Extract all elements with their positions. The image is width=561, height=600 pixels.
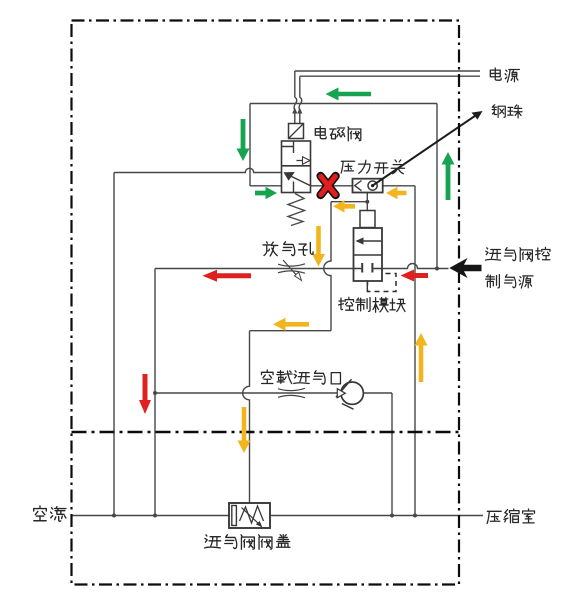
wire: loop right vertical bbox=[436, 104, 438, 269]
valve top blocked port marks bbox=[282, 141, 294, 153]
label 进气阀阀盖 intake valve bonnet bbox=[205, 535, 290, 550]
control module body bbox=[354, 228, 383, 281]
body divider bbox=[354, 254, 383, 256]
label 空载进气口 unload inlet bbox=[261, 370, 340, 384]
valve position divider bbox=[282, 165, 311, 167]
valve flow diagonal bbox=[288, 175, 311, 186]
bonnet diagonal arrow bbox=[242, 508, 262, 527]
label 电源 power bbox=[490, 68, 519, 82]
wire: unload line right segment bbox=[364, 392, 393, 394]
junction node bbox=[390, 514, 394, 518]
junction node bbox=[435, 267, 439, 271]
label 压力开关 pressure switch bbox=[341, 160, 405, 174]
yellow arrow down (vent) bbox=[312, 226, 325, 267]
upper arrow bbox=[357, 240, 381, 242]
junction node bbox=[153, 514, 157, 518]
wire: valve lower-left feed bbox=[250, 185, 282, 187]
label 制气源 line2 bbox=[486, 275, 533, 288]
red arrow left (module) bbox=[401, 270, 429, 282]
junction node bbox=[153, 391, 157, 395]
yellow arrow down (to bonnet) bbox=[238, 407, 251, 453]
chevron bbox=[355, 181, 362, 191]
junction node bbox=[365, 200, 369, 204]
black arrow left (intake valve control air source) bbox=[449, 258, 481, 278]
bottom stub to dashed box bbox=[366, 281, 368, 292]
wire: unload line y=393 bbox=[155, 392, 340, 394]
wire: power drop right with jog bbox=[299, 76, 302, 123]
wire: drop to bonnet x=249.5 with hop bbox=[243, 331, 250, 503]
wire: psw junction to left bbox=[331, 201, 367, 203]
piston bar bbox=[232, 506, 237, 526]
label 放气孔 vent hole bbox=[263, 242, 313, 256]
solenoid valve U1 coil box bbox=[289, 124, 304, 139]
control module dashed box bbox=[368, 274, 397, 292]
green arrow down (left of valve) bbox=[237, 119, 250, 161]
pressure switch box bbox=[353, 179, 383, 193]
yellow arrow left (below switch) bbox=[333, 200, 355, 213]
unload throttle symbol bbox=[278, 388, 305, 397]
junction node bbox=[413, 514, 417, 518]
wire: vent line left drop x=155 bbox=[154, 269, 156, 516]
label 电磁阀 solenoid valve bbox=[315, 126, 361, 140]
check valve poppet triangle bbox=[337, 389, 345, 398]
control module pilot box bbox=[360, 211, 375, 228]
wire: loop left vertical bbox=[249, 104, 251, 187]
label 压缩室 compression chamber bbox=[487, 509, 534, 524]
pointer arrowhead bbox=[472, 111, 483, 120]
wire: jog left at y=330.7 bbox=[250, 330, 332, 332]
outer dash-dot border bbox=[72, 21, 460, 585]
intake valve bonnet box bbox=[229, 503, 270, 528]
green arrow up (right side) bbox=[442, 152, 455, 200]
label 钢珠 steel ball bbox=[492, 105, 522, 118]
label 空滤 air filter bbox=[34, 506, 66, 521]
wire: power drop left with jog bbox=[294, 71, 297, 124]
power supply line 1 (top) bbox=[295, 70, 480, 72]
yellow arrow left (right of switch) bbox=[386, 187, 407, 199]
power supply line 2 bbox=[300, 75, 480, 77]
coil diagonal bbox=[289, 124, 303, 138]
wire: left supply vertical x=114 bbox=[113, 173, 115, 516]
wire: main vent line y=268.5 bbox=[155, 268, 362, 270]
current arrowhead right bbox=[297, 108, 302, 114]
wire: valve right to pressure switch bbox=[311, 185, 353, 187]
wire: right drop x=415 bbox=[414, 186, 416, 516]
green arrow right (valve inlet) bbox=[255, 187, 277, 199]
wire: vent drop x=331 with hop over main line bbox=[324, 202, 331, 331]
valve body bbox=[282, 141, 311, 193]
wire: main line right of module with hop bbox=[372, 264, 448, 269]
wire: unload right drop x=392 bbox=[391, 393, 393, 516]
wire: loop top horizontal bbox=[250, 103, 437, 105]
label 进气阀控 line1 bbox=[485, 247, 549, 261]
valve top arrow bbox=[297, 160, 311, 162]
label 控制模块 control module bbox=[339, 297, 405, 312]
green arrow left (top) bbox=[326, 88, 372, 101]
vent throttle diagonal arrow bbox=[283, 260, 300, 279]
inner dash-dot divider bbox=[72, 431, 460, 433]
current arrowhead left bbox=[292, 108, 297, 114]
line stubs inside body bbox=[354, 268, 383, 270]
switch circle bbox=[368, 181, 377, 190]
red X blocked mark bbox=[321, 176, 336, 195]
bonnet spring bbox=[240, 506, 264, 523]
wire: psw bottom stub bbox=[366, 193, 368, 211]
red arrow left (vent) bbox=[203, 270, 252, 282]
spring bbox=[288, 194, 305, 226]
piston bars bbox=[362, 263, 372, 273]
wire: pressure switch to right drop bbox=[383, 185, 415, 187]
valve bottom stub bbox=[293, 182, 295, 193]
vent throttle symbol bbox=[278, 264, 305, 273]
check valve seat lines bbox=[336, 379, 354, 409]
junction node bbox=[112, 514, 116, 518]
check valve circle bbox=[341, 382, 363, 404]
red arrow down (left) bbox=[139, 374, 151, 414]
wire: valve upper-left feed with hop bbox=[114, 168, 282, 172]
yellow arrow up (right) bbox=[415, 333, 428, 382]
steel-ball pointer line bbox=[373, 114, 479, 186]
yellow arrow left (above unload) bbox=[273, 318, 309, 331]
wire: compressor bottom line bbox=[72, 515, 483, 517]
